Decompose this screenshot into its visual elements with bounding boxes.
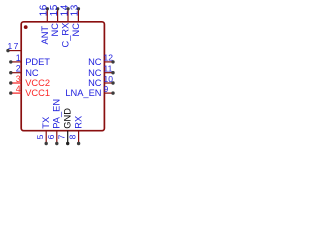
pin 13 unconnected end dot	[77, 7, 80, 10]
pin 3 unconnected end dot	[9, 81, 12, 84]
svg-text:PA_EN: PA_EN	[52, 99, 62, 129]
svg-text:C_RX: C_RX	[61, 23, 71, 48]
svg-text:LNA_EN: LNA_EN	[65, 88, 101, 98]
svg-text:12: 12	[104, 53, 114, 63]
pin 9 wire	[104, 92, 113, 94]
pin 15 unconnected end dot	[56, 7, 59, 10]
svg-text:17: 17	[8, 41, 20, 51]
pin 12 wire	[104, 61, 113, 63]
svg-text:10: 10	[104, 74, 114, 84]
IC body U1 (RF front-end symbol outline)	[21, 22, 104, 131]
svg-text:9: 9	[104, 84, 109, 94]
pin 17 unconnected end dot	[6, 49, 9, 52]
svg-text:NC: NC	[50, 23, 60, 37]
svg-text:3: 3	[16, 74, 21, 84]
pin 2 unconnected end dot	[9, 71, 12, 74]
pin 9 unconnected end dot	[111, 91, 114, 94]
pin 7 wire (ground)	[67, 131, 69, 144]
svg-text:13: 13	[70, 4, 81, 16]
pin 4 wire (power, VCC1)	[11, 92, 21, 94]
pin 7 unconnected end dot	[66, 142, 69, 145]
pin 1 wire	[11, 61, 21, 63]
svg-text:NC: NC	[88, 57, 102, 67]
svg-text:NC: NC	[71, 23, 81, 37]
pin 14 wire	[67, 9, 69, 22]
pin 6 wire	[56, 131, 58, 144]
svg-text:GND: GND	[62, 108, 72, 129]
pin 12 unconnected end dot	[111, 60, 114, 63]
svg-text:PDET: PDET	[25, 57, 50, 67]
svg-text:15: 15	[49, 4, 60, 16]
svg-text:8: 8	[68, 134, 78, 139]
svg-text:VCC2: VCC2	[25, 78, 50, 88]
pin 13 wire	[77, 9, 79, 22]
pin 6 unconnected end dot	[55, 142, 58, 145]
svg-text:1: 1	[16, 53, 21, 63]
svg-text:RX: RX	[73, 116, 83, 129]
pin 3 wire (power, VCC2)	[11, 82, 21, 84]
svg-text:2: 2	[16, 64, 21, 74]
svg-text:TX: TX	[41, 117, 51, 129]
pin 10 wire	[104, 82, 113, 84]
pin 1 indicator dot	[24, 25, 28, 29]
pin 5 unconnected end dot	[45, 142, 48, 145]
svg-text:5: 5	[35, 134, 45, 139]
svg-text:NC: NC	[25, 68, 39, 78]
pin 8 wire	[78, 131, 80, 144]
pin 17 wire	[8, 50, 21, 52]
pin 16 unconnected end dot	[46, 7, 49, 10]
svg-text:VCC1: VCC1	[25, 88, 50, 98]
svg-text:4: 4	[16, 84, 21, 94]
svg-text:11: 11	[104, 64, 113, 74]
pin 1 unconnected end dot	[9, 60, 12, 63]
svg-text:14: 14	[59, 4, 70, 16]
pin 5 wire	[45, 131, 47, 144]
pin 2 wire	[11, 72, 21, 74]
pin 14 unconnected end dot	[66, 7, 69, 10]
svg-text:NC: NC	[88, 78, 102, 88]
svg-text:ANT: ANT	[40, 26, 50, 45]
pin 15 wire	[57, 9, 59, 22]
pin 4 unconnected end dot	[9, 91, 12, 94]
pin 10 unconnected end dot	[111, 81, 114, 84]
pin 16 wire	[46, 9, 48, 22]
pin 8 unconnected end dot	[77, 142, 80, 145]
pin 11 unconnected end dot	[111, 71, 114, 74]
svg-text:6: 6	[46, 134, 56, 139]
svg-text:NC: NC	[88, 68, 102, 78]
svg-text:7: 7	[57, 134, 67, 139]
pin 11 wire	[104, 72, 113, 74]
